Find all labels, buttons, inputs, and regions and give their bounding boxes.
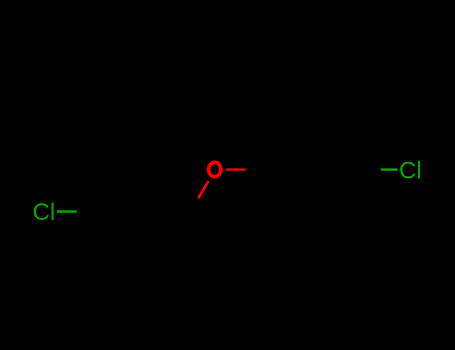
wire: bond Cl1-C1 black half	[77, 210, 95, 213]
bond Cl1 green half	[57, 210, 77, 212]
wire: bond C1-C2	[95, 185, 143, 212]
benzene ring	[266, 126, 366, 213]
svg-text:Cl: Cl	[33, 199, 56, 226]
svg-text:Cl: Cl	[399, 158, 422, 185]
ring double bond 3	[274, 171, 296, 208]
atom label O (drawn as bold ring)	[209, 162, 221, 176]
bond O-ring red half	[226, 168, 246, 170]
bond O-C3 red half (diagonal)	[198, 181, 208, 198]
wire: bond ring-Cl2 black half	[366, 168, 381, 171]
wire: bond C2-C3	[143, 185, 191, 213]
wire: bond O-ring black half	[246, 168, 266, 171]
ring double bond 1	[295, 132, 338, 135]
ring double bond 2	[337, 171, 359, 208]
bond ring-Cl2 green half	[381, 168, 398, 170]
wire: bond C3-O black half	[190, 197, 199, 213]
